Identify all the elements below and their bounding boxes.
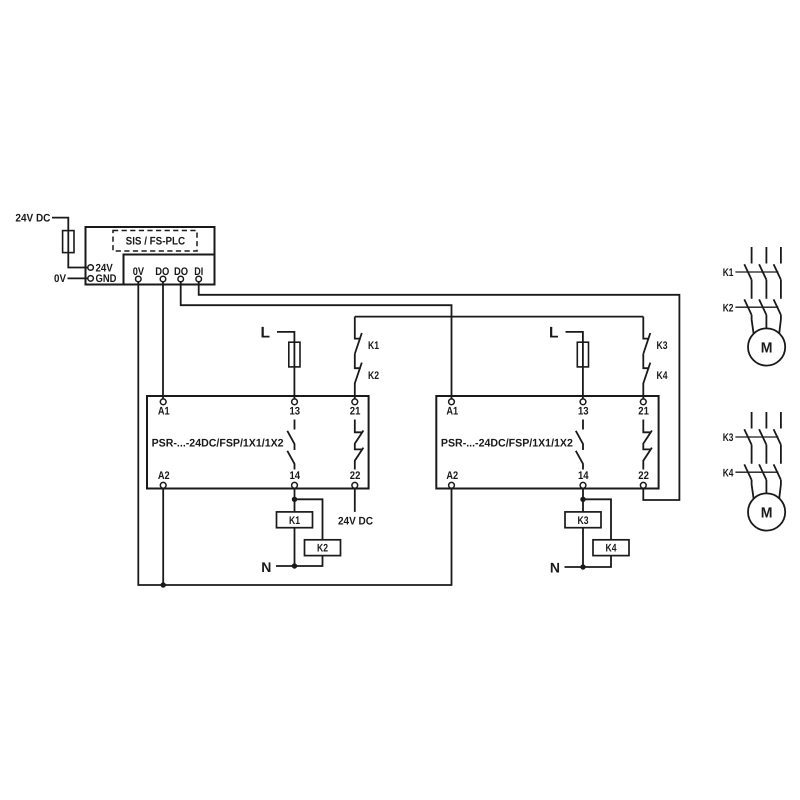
pin 21 of U3 [640, 399, 646, 405]
pin 13 of U3 [580, 399, 586, 405]
wire DO2 to A1 of relay U3 [181, 282, 452, 399]
wire fuse F3 to pin 13 of U3 [582, 367, 584, 399]
wire DI feedback loop to 22 of relay U3 [199, 282, 680, 500]
wire A2 of U2 to 0V bus [162, 488, 164, 585]
contactor K4 3-pole blades [744, 464, 781, 480]
fuse F3 [577, 342, 588, 367]
wire branch to coil K2 [295, 499, 323, 540]
wires contactor K2 to motor M1 [752, 315, 781, 334]
pin 14 of U2 [292, 482, 298, 488]
svg-text:SIS / FS-PLC: SIS / FS-PLC [126, 236, 186, 248]
wires contactor K4 to motor M2 [752, 480, 781, 499]
svg-text:A2: A2 [446, 470, 458, 482]
svg-text:22: 22 [638, 470, 649, 482]
svg-text:PSR-...-24DC/FSP/1X1/1X2: PSR-...-24DC/FSP/1X1/1X2 [441, 438, 573, 450]
wire fuse F2 to pin 13 of U2 [293, 367, 295, 399]
pin A1 of U2 [160, 399, 166, 405]
fuse F1 [67, 231, 69, 253]
pin 22 of U3 [640, 482, 646, 488]
contactor K1-K2 interconnect leads [752, 280, 781, 299]
svg-text:K4: K4 [606, 543, 618, 555]
svg-text:K2: K2 [317, 543, 328, 555]
junction 14 branch right [580, 497, 585, 502]
svg-text:K1: K1 [723, 267, 734, 279]
svg-text:PSR-...-24DC/FSP/1X1/1X2: PSR-...-24DC/FSP/1X1/1X2 [152, 438, 284, 450]
wire 14 of U2 to coil circuit [294, 488, 296, 566]
svg-text:24V DC: 24V DC [15, 213, 50, 225]
wire 0V to GND terminal [68, 277, 88, 279]
junction N left [292, 563, 297, 568]
svg-text:K4: K4 [657, 370, 669, 382]
svg-text:22: 22 [350, 470, 361, 482]
pin A2 of U3 [449, 482, 455, 488]
PLC U1 dashed label box SIS / FS-PLC [113, 231, 197, 252]
pin A1 of U3 [449, 399, 455, 405]
svg-text:K4: K4 [723, 467, 734, 479]
svg-text:14: 14 [290, 470, 301, 482]
svg-text:A1: A1 [446, 406, 458, 418]
svg-text:GND: GND [96, 273, 117, 285]
svg-text:0V: 0V [54, 273, 67, 285]
wire 22 of U2 to 24V DC [354, 488, 356, 512]
contactor K1 linkage [735, 271, 778, 273]
pin 21 of U2 [352, 399, 358, 405]
svg-text:K3: K3 [723, 432, 734, 444]
pin 22 of U2 [352, 482, 358, 488]
svg-text:A2: A2 [158, 470, 170, 482]
pin A2 of U2 [160, 482, 166, 488]
svg-text:K3: K3 [578, 515, 589, 527]
contact NC K3 (mirror) [643, 317, 650, 354]
wire N to junction [276, 565, 295, 567]
wire 0V bus down and right to A2 of relay U3 [138, 282, 451, 585]
contactor K3-K4 interconnect leads [752, 445, 781, 464]
relay U2 box PSR left [147, 396, 369, 489]
contactor K1 3-pole blades [744, 264, 781, 280]
wire L to fuse F3 [566, 332, 583, 367]
relay U3 box PSR right [436, 396, 658, 489]
junction A2 of U2 on 0V bus [161, 582, 166, 587]
svg-text:M: M [761, 341, 773, 357]
motor M1 [748, 328, 785, 365]
PLC U1 inner terminal box [124, 255, 215, 285]
svg-text:21: 21 [350, 406, 361, 418]
svg-text:K3: K3 [657, 340, 668, 352]
contactor K3 3-pole leads top [752, 412, 781, 429]
wire feedback link between contact chains [355, 316, 644, 318]
svg-text:L: L [549, 325, 558, 342]
wire DO1 to A1 of relay U2 [162, 282, 164, 399]
wire from 24V DC to fuse F1 [52, 218, 68, 231]
wire L to fuse F2 [277, 332, 294, 367]
pin 13 of U2 [292, 399, 298, 405]
junction N right [580, 564, 585, 569]
contact NC K1 (mirror) [355, 317, 362, 354]
contactor K2 3-pole blades [744, 299, 781, 315]
wire coil K4 to N bus right [583, 556, 611, 567]
svg-text:N: N [550, 559, 560, 575]
wire coil K2 to N bus [295, 556, 323, 566]
svg-text:K1: K1 [289, 515, 300, 527]
svg-text:N: N [261, 559, 271, 575]
contactor K3 linkage [735, 436, 778, 438]
PLC U1 outer box [86, 227, 215, 285]
svg-text:L: L [261, 325, 270, 342]
contact NC K4 (mirror) [643, 354, 650, 399]
coil K4 [593, 540, 629, 556]
wire 14 of U3 to coil circuit [582, 488, 584, 567]
svg-text:A1: A1 [158, 406, 170, 418]
pin 24V of PLC [88, 265, 94, 271]
pin GND of PLC [88, 276, 94, 282]
contact NC 21-22 of U2 [355, 420, 364, 470]
svg-text:21: 21 [638, 406, 649, 418]
contactor K2 linkage [735, 306, 778, 308]
svg-text:K2: K2 [723, 302, 734, 314]
coil K3 [565, 512, 601, 528]
contact NO 13-14 of U3 [576, 420, 583, 470]
svg-text:K2: K2 [368, 370, 379, 382]
contactor K3 3-pole blades [744, 429, 781, 445]
wire N right to junction [565, 566, 584, 568]
svg-text:14: 14 [578, 470, 589, 482]
contactor K1 3-pole leads top [752, 247, 781, 264]
svg-text:M: M [761, 506, 773, 522]
contact NC K2 (mirror) [355, 354, 362, 399]
contactor K4 linkage [735, 471, 778, 473]
motor M2 [748, 493, 785, 530]
svg-text:13: 13 [290, 406, 301, 418]
contact NC 21-22 of U3 [643, 420, 652, 470]
svg-text:24V DC: 24V DC [338, 516, 373, 528]
svg-text:K1: K1 [368, 340, 379, 352]
coil K2 [305, 540, 341, 556]
wire branch to coil K4 [583, 499, 611, 540]
svg-text:13: 13 [578, 406, 589, 418]
fuse F2 [289, 342, 300, 367]
contact NO 13-14 of U2 [287, 420, 294, 470]
pin 14 of U3 [580, 482, 586, 488]
wire fuse to 24V terminal [68, 253, 88, 268]
coil K1 [277, 512, 313, 528]
junction 14 branch [292, 497, 297, 502]
